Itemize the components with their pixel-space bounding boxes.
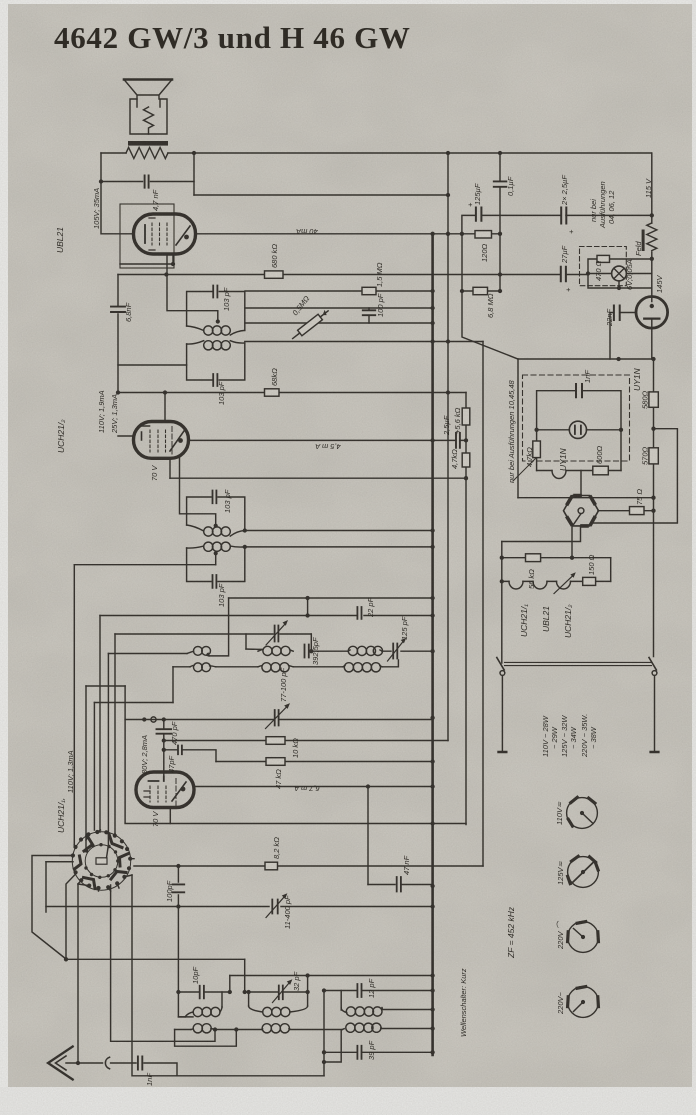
resistor output choke zigzag xyxy=(126,148,168,159)
wire right rect top y359 xyxy=(518,358,654,360)
resistor 4,7k mid xyxy=(462,453,470,467)
shield box UBL21 xyxy=(120,204,174,268)
wire 39pF y1052.3 xyxy=(324,1051,433,1053)
trimmer cap 125pF xyxy=(388,638,407,661)
wire AVC long y564.7 xyxy=(74,564,215,566)
coil ant C primary xyxy=(341,1007,382,1016)
resistor 470R xyxy=(597,255,610,262)
resistor 680k xyxy=(265,271,284,278)
capacitor 470pF xyxy=(157,729,172,734)
wire switch left x46 xyxy=(46,862,73,912)
potentiometer 0,5M xyxy=(291,308,331,341)
wire UCH21/2 cath pin xyxy=(169,458,171,478)
dashed box 04-06-12 xyxy=(580,247,627,286)
wire x536.6 with 4.7k xyxy=(536,430,538,471)
wire 8.2k y866 xyxy=(134,865,483,867)
capacitor 103pF IFT2b xyxy=(213,575,217,588)
wire 100pF drop x369 xyxy=(368,308,370,323)
capacitor 22pF xyxy=(357,607,361,619)
wire C mid y990.5 xyxy=(324,990,433,992)
coil IFT2 secondary xyxy=(187,542,245,551)
voltage selector 220V-2 xyxy=(568,987,599,1018)
wire UBL21 pin x173 xyxy=(172,254,174,264)
resistor 10k xyxy=(266,737,285,745)
wire antenna y1063 xyxy=(66,1063,177,1076)
wire cathode y478.2 xyxy=(170,477,466,479)
wire IF2 sec top y530.5 xyxy=(245,530,433,532)
wire detector y291 xyxy=(245,290,500,292)
resistor 4,7k dashed-box xyxy=(533,441,541,458)
capacitor 47pF xyxy=(178,746,182,755)
wire x610.7 xyxy=(610,558,612,582)
wire screen y264 xyxy=(120,263,173,265)
wire x324 xyxy=(323,992,325,1076)
wire AVC y274.5 xyxy=(118,274,588,276)
wire y308 xyxy=(245,307,433,309)
wire IFT2 tap x215.7 xyxy=(215,553,217,564)
wire x307.6 xyxy=(307,598,309,616)
wire 4.5mA y440.4 xyxy=(188,439,466,441)
voltage selector 125V xyxy=(568,856,599,887)
coil IFT2 primary xyxy=(187,525,245,536)
wire cathode bottom y823.5 xyxy=(125,823,466,825)
antenna xyxy=(48,1047,110,1080)
transformer IFT1 loop bottom xyxy=(187,343,245,380)
wire UY1N bottom pin xyxy=(651,328,653,359)
wire x244.7 xyxy=(244,959,246,992)
wire mains pins xyxy=(502,676,654,751)
coil osc1 secondary xyxy=(190,663,216,672)
wire bundle x115 xyxy=(114,634,116,834)
capacitor 0,1uF xyxy=(494,181,507,186)
coil osc3 primary xyxy=(348,646,383,655)
wire socket top stub xyxy=(580,471,582,497)
wire 0.1uF x500 xyxy=(499,153,501,291)
resistor 8,2k xyxy=(265,862,278,870)
wire osc box top y719.5 xyxy=(125,719,433,721)
wire bundle x74.3 xyxy=(73,565,75,847)
resistor 580R xyxy=(649,392,658,407)
wire IF out y341.5 xyxy=(245,341,483,343)
wire IFT2 bottom loop xyxy=(187,547,245,582)
wire right bus x653.5 xyxy=(653,359,655,657)
capacitor 2,5uF xyxy=(456,433,460,448)
wire bundle x100 xyxy=(99,616,101,833)
wire bundle y686 xyxy=(86,685,125,687)
wire x246 drop xyxy=(245,634,247,649)
capacitor 47nF xyxy=(397,877,401,892)
wire 100pF top stub xyxy=(178,991,229,993)
capacitor 10pF xyxy=(200,986,204,999)
speaker LS xyxy=(124,80,172,135)
coil ant B primary xyxy=(249,1006,308,1017)
wire x132 xyxy=(132,875,324,1076)
wire row1 right y651.2 xyxy=(311,650,432,652)
wire x368 xyxy=(367,787,369,885)
wire HT+ top y153 xyxy=(101,152,651,154)
speaker magnet bar xyxy=(128,141,168,146)
wire anode 40mA y233.8 xyxy=(196,233,500,235)
wire 47k y761.5 xyxy=(216,761,433,763)
wire row2 chain y666.8 xyxy=(173,660,398,667)
resistor Feld zigzag xyxy=(647,223,657,251)
wire osc coil1 y653.5 xyxy=(108,653,187,655)
capacitor 22nF xyxy=(614,306,620,321)
wire bundle y702.5 xyxy=(94,702,173,704)
wire socket pin x572 xyxy=(571,527,573,558)
wire filament row y470.5 xyxy=(537,470,621,472)
wire x66 xyxy=(66,874,76,959)
coil IFT1 primary xyxy=(187,326,245,335)
right outer rect done in wires; dashed box nur-bei xyxy=(523,375,630,461)
voltage selector 220V-1 xyxy=(568,922,599,953)
wire grid x163.8 with 470pF xyxy=(163,720,165,777)
wire y1062 right xyxy=(324,1030,341,1062)
wire osc chain row1 xyxy=(209,598,229,656)
wire x222 A xyxy=(221,992,223,1007)
capacitor 103pF IFT1b xyxy=(213,374,217,386)
trimmer cap padder y717.6 xyxy=(266,703,291,728)
wire switch far-left x32 xyxy=(32,856,73,960)
wire 4.7nF branch y181.5 xyxy=(101,181,194,183)
resistor 56k xyxy=(526,554,541,562)
wire x462 HT to rect xyxy=(462,234,518,359)
trimmer cap osc top xyxy=(266,620,288,645)
rotary switch Wellenschalter xyxy=(46,830,134,891)
trimmer cap 32pF xyxy=(273,979,293,1002)
wire heater left x501.8 xyxy=(501,542,503,664)
wire UCH21/2 top pin xyxy=(164,393,166,422)
trimmer cap 11-400pF xyxy=(266,893,287,917)
wire UCH21/2 anode pin x179.5 xyxy=(180,458,216,526)
annotation pointer line xyxy=(513,458,536,481)
wire osc y615.5 xyxy=(100,615,433,617)
Feld core bar xyxy=(642,230,645,252)
capacitor 392,5pF xyxy=(305,645,309,658)
wire row-b chain y1029.5 xyxy=(175,1029,433,1030)
wire lamp circuit xyxy=(588,259,652,288)
wire x110.6 xyxy=(111,885,215,1041)
tube socket hexagon xyxy=(564,496,599,526)
coil ant B secondary xyxy=(262,1024,290,1033)
resistor 47k xyxy=(266,758,285,766)
wire 22nF y312.5 xyxy=(610,313,636,360)
switch contact circle on osc box top xyxy=(151,717,156,722)
wire y541.5 socket feed xyxy=(502,526,581,542)
mains switch xyxy=(497,658,659,753)
wire osc box left x125.1 xyxy=(124,686,126,823)
coil IFT1 secondary xyxy=(187,341,245,350)
wire bundle x108.4 xyxy=(107,654,109,834)
resistor 120R xyxy=(475,231,492,238)
wire A loop y1046.2 xyxy=(175,1030,237,1047)
wire bus x448 xyxy=(447,153,449,741)
wire 11-400 y906.5 xyxy=(46,906,433,908)
wire x311.3 drop xyxy=(310,634,312,651)
capacitor 100pF xyxy=(363,310,375,315)
wire socket E to 75R xyxy=(598,510,654,512)
wire y959.3 xyxy=(66,958,244,960)
capacitor 39pF xyxy=(357,1046,361,1059)
thick bus x432.6 xyxy=(431,234,434,1055)
coil ant A secondary xyxy=(191,1024,215,1033)
wire 115V drop x651.8 xyxy=(651,153,653,302)
capacitor 2x2,5uF xyxy=(561,208,566,224)
wire bus x466 xyxy=(465,393,467,825)
wire UCH21/2 left pin xyxy=(118,435,134,437)
capacitor 4,7nF xyxy=(145,176,149,188)
wire branch y428.7 xyxy=(592,429,677,523)
wire x229.8 xyxy=(229,976,231,993)
capacitor 27uF xyxy=(561,267,566,281)
wire 47pF y749.8 xyxy=(164,750,216,762)
capacitor 1nF antenna xyxy=(138,1057,142,1070)
coil ant C secondary xyxy=(342,1023,381,1032)
resistor 75R xyxy=(630,507,645,515)
coil osc2 secondary xyxy=(258,663,293,672)
resistor 6,8M xyxy=(473,287,488,294)
tube UCH21/1 xyxy=(136,772,194,808)
wire B top y975.5 xyxy=(230,975,433,977)
resistor 68k xyxy=(265,389,280,396)
tube UBL21 xyxy=(134,214,196,254)
wire UBL21 grid pin x167 xyxy=(167,254,218,322)
wire IFT2 top loop xyxy=(187,497,245,531)
wire trimmer line y634 xyxy=(115,633,311,635)
wire 10k grid line y740.5 xyxy=(164,740,448,742)
wire x194 drop xyxy=(193,153,195,195)
wire right rect bottom y497.7 xyxy=(518,497,654,499)
wire bus x118 with 6.8nF gap xyxy=(117,275,119,393)
capacitor 103pF IFT1a xyxy=(213,286,217,298)
coil ant A primary xyxy=(178,1007,222,1017)
wire speaker left drop x101 xyxy=(101,153,133,234)
capacitor 100pF bottom xyxy=(173,884,185,892)
wire bus x483 xyxy=(482,342,484,867)
page white edges xyxy=(0,0,8,1115)
lamp 6V 0,05A xyxy=(612,266,627,281)
wire bundle x94.4 xyxy=(93,703,95,831)
wire 56k row y557.7 xyxy=(502,557,611,559)
wire B mid y992 xyxy=(249,991,308,993)
capacitor 6,8nF xyxy=(111,307,125,312)
resistor 1,5M xyxy=(362,287,376,294)
rectifier tube UY1N xyxy=(636,297,668,329)
wire y598 xyxy=(229,597,433,599)
resistor 570R xyxy=(649,448,658,464)
wire inner rect UY1N alt xyxy=(537,391,621,471)
resistor 150R xyxy=(583,577,596,585)
wire 125uF y215.4 xyxy=(462,215,652,233)
filament hump UBL21 xyxy=(533,581,547,589)
wire y323 xyxy=(245,322,433,324)
wire 6.8M right end xyxy=(499,274,501,276)
wire UCH21/1 cath pin xyxy=(169,807,171,824)
wire filament row y581.4 xyxy=(502,580,611,582)
wire lamp row y429.8 xyxy=(537,429,621,431)
filament hump UCH21/1 xyxy=(509,581,523,589)
tube UCH21/2 xyxy=(134,422,189,459)
transformer IFT1 loop top xyxy=(187,292,245,331)
capacitor 103pF IFT2a xyxy=(213,491,217,504)
wire y195 to x448 xyxy=(194,194,448,196)
coil osc3 secondary xyxy=(343,663,382,672)
wire x248.6 B xyxy=(248,992,250,1006)
junction dots xyxy=(192,151,196,155)
wire x78 xyxy=(77,884,79,1063)
wire x173 xyxy=(172,667,174,703)
filament hump UCH21/2 with tap arrow xyxy=(554,572,576,593)
voltage selector 110V xyxy=(567,797,598,828)
wire IFT1 lower feed y365 xyxy=(118,364,187,366)
wire C-a loop xyxy=(341,991,432,1011)
filament UY1N hump xyxy=(552,471,566,479)
capacitor 12pF xyxy=(357,984,361,997)
wire x178.4 big drop xyxy=(178,866,193,1017)
coil osc1 primary xyxy=(187,647,211,656)
resistor 5,6k xyxy=(462,408,470,425)
wire right rect left x518 xyxy=(517,359,519,498)
capacitor 1nF right xyxy=(576,384,582,397)
wire x307.6 B xyxy=(307,976,309,1007)
coil osc2 primary xyxy=(246,646,293,655)
wire UCH21/1 anode y786.5 xyxy=(194,786,433,788)
wire 47nF y884.5 xyxy=(368,884,433,886)
wire IF2 y546.9 xyxy=(245,546,433,548)
resistor 600R xyxy=(593,466,609,475)
indicator tube small xyxy=(569,421,586,438)
wire bundle x86 xyxy=(85,686,87,848)
wire grid return y392.5 xyxy=(118,392,466,394)
capacitor 125uF xyxy=(476,208,482,221)
